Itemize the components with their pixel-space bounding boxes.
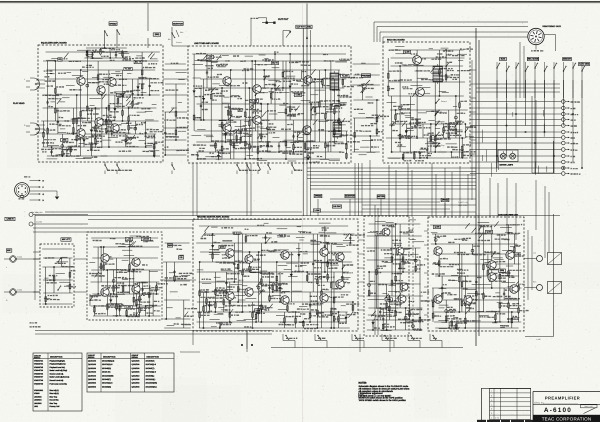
svg-text:(250): (250): [62, 139, 67, 142]
svg-text:VR605/706: VR605/706: [34, 372, 43, 375]
svg-text:Q802/806: Q802/806: [88, 382, 96, 385]
svg-text:VR602/704: VR602/704: [34, 363, 43, 366]
svg-text:Blk: Blk: [168, 38, 171, 41]
svg-text:6: 6: [491, 394, 492, 397]
svg-text:C-955: C-955: [296, 94, 301, 97]
svg-text:TEAC CORPORATION: TEAC CORPORATION: [542, 416, 592, 421]
svg-text:2SC945(L): 2SC945(L): [146, 374, 155, 377]
svg-text:OUT PUT: OUT PUT: [278, 18, 289, 21]
svg-text:REF.NO.: REF.NO.: [34, 356, 41, 359]
svg-text:TL-460: TL-460: [251, 100, 257, 103]
svg-text:LINE IN: LINE IN: [6, 218, 14, 221]
svg-text:BIAS: BIAS: [501, 58, 506, 61]
svg-text:2SC945(T): 2SC945(T): [146, 367, 155, 370]
svg-text:L901: L901: [34, 405, 38, 408]
svg-text:Q301/310: Q301/310: [132, 374, 140, 377]
svg-text:VR603/705: VR603/705: [34, 366, 43, 369]
svg-text:Gry Blk: Gry Blk: [36, 220, 42, 223]
svg-text:2SA726(1)-S: 2SA726(1)-S: [102, 363, 113, 366]
svg-text:Playback Level Adj.: Playback Level Adj.: [50, 366, 66, 369]
svg-text:SPEED: SPEED: [442, 199, 449, 202]
svg-text:L-302: L-302: [127, 238, 132, 241]
svg-text:(250): (250): [334, 104, 339, 107]
svg-text:Q803/806: Q803/806: [88, 385, 96, 388]
svg-text:Relay 2: Relay 2: [441, 111, 447, 114]
svg-text:Q-905: Q-905: [435, 226, 440, 229]
svg-text:L02 OSC: L02 OSC: [333, 205, 341, 208]
svg-text:L02 150: L02 150: [143, 238, 150, 241]
svg-text:TL-460: TL-460: [125, 68, 131, 71]
svg-text:Dummy Coil: Dummy Coil: [50, 405, 60, 408]
svg-text:Record Level Adj.: Record Level Adj.: [50, 379, 65, 382]
svg-text:EQ: EQ: [59, 58, 62, 61]
svg-text:L-446: L-446: [536, 338, 541, 341]
svg-text:L601/602: L601/602: [34, 395, 42, 398]
svg-text:Playback EQ(Norm): Playback EQ(Norm): [50, 363, 66, 366]
svg-text:Rch: Rch: [533, 281, 536, 284]
svg-text:SPEED: SPEED: [109, 22, 117, 25]
svg-text:Q203/206: Q203/206: [132, 367, 140, 370]
svg-text:Relay 1: Relay 1: [441, 100, 447, 103]
svg-text:Lch: Lch: [533, 252, 536, 255]
svg-text:(250): (250): [500, 269, 505, 272]
svg-text:NOTES: NOTES: [359, 381, 367, 384]
svg-text:Bias Trap: Bias Trap: [50, 395, 58, 398]
svg-text:RECORD MASTER AMPL BOARD: RECORD MASTER AMPL BOARD: [197, 215, 230, 218]
svg-text:2SC945(T): 2SC945(T): [146, 360, 155, 363]
svg-text:C-955: C-955: [118, 94, 123, 97]
svg-text:2SC1000(GR): 2SC1000(GR): [102, 374, 114, 377]
svg-text:LINE TONE AMPL BOARD: LINE TONE AMPL BOARD: [194, 42, 219, 45]
svg-text:Meter Level Adj.(Source): Meter Level Adj.(Source): [50, 376, 70, 379]
svg-text:Q104/106: Q104/106: [88, 371, 96, 374]
svg-text:EQUALIZER AMPL BOARD: EQUALIZER AMPL BOARD: [41, 42, 67, 45]
svg-text:Q-904: Q-904: [487, 231, 492, 234]
svg-text:Bias: Bias: [441, 122, 445, 125]
svg-text:VR801/802: VR801/802: [34, 389, 43, 392]
svg-text:TAPE SPEED switch shown in the: TAPE SPEED switch shown in the HIGH posi…: [359, 399, 407, 402]
svg-text:EQ TO: EQ TO: [272, 62, 278, 65]
svg-text:TL-460: TL-460: [342, 75, 348, 78]
svg-text:DESCRIPTION: DESCRIPTION: [103, 356, 116, 359]
svg-text:REMOTE/MIC JACK: REMOTE/MIC JACK: [543, 25, 562, 28]
svg-text:LOW ±2.8V: LOW ±2.8V: [458, 204, 468, 207]
svg-text:1: 1: [491, 417, 492, 420]
svg-text:7: 7: [491, 390, 492, 393]
svg-text:Q102/106: Q102/106: [88, 363, 96, 366]
svg-text:Wht: Wht: [180, 31, 184, 34]
svg-text:VR606/707: VR606/707: [34, 376, 43, 379]
svg-text:AUTO DEM: AUTO DEM: [579, 63, 589, 66]
svg-text:Source: Source: [176, 41, 182, 44]
svg-text:Record EQ: Record EQ: [50, 399, 59, 402]
svg-text:2SA726(1)-S: 2SA726(1)-S: [146, 363, 157, 366]
svg-text:VR601/704: VR601/704: [34, 359, 43, 362]
svg-text:MONITOR: MONITOR: [345, 195, 355, 198]
svg-text:Q101/106: Q101/106: [88, 360, 96, 363]
svg-text:DESCRIPTION: DESCRIPTION: [147, 356, 160, 359]
svg-text:2SC1222(L): 2SC1222(L): [146, 378, 156, 381]
svg-text:Q308: Q308: [220, 246, 224, 249]
svg-text:Q401/406: Q401/406: [132, 378, 140, 381]
svg-text:SPEED: SPEED: [315, 195, 322, 198]
svg-text:Meter Level Adj.(Play): Meter Level Adj.(Play): [50, 369, 68, 372]
svg-text:2SA66 (Y): 2SA66 (Y): [102, 371, 111, 374]
svg-text:MIC ATT: MIC ATT: [62, 238, 71, 241]
svg-text:BIAS OSC BOARD: BIAS OSC BOARD: [387, 39, 405, 42]
svg-text:REC MODE: REC MODE: [528, 58, 539, 61]
svg-text:Peak Lamp Level Adj.: Peak Lamp Level Adj.: [50, 382, 68, 385]
svg-text:VR607/708: VR607/708: [34, 379, 43, 382]
svg-text:Shield: Shield: [17, 289, 22, 292]
svg-text:Q801/806: Q801/806: [88, 378, 96, 381]
svg-text:2SC828(S): 2SC828(S): [102, 385, 111, 388]
svg-text:MEMORY: MEMORY: [563, 58, 572, 61]
svg-text:L-304: L-304: [315, 209, 320, 212]
svg-text:PLAY HEAD: PLAY HEAD: [13, 102, 25, 105]
svg-text:2SC1000(GR): 2SC1000(GR): [146, 382, 158, 385]
svg-text:L801/802: L801/802: [34, 402, 42, 405]
svg-text:A-6100: A-6100: [544, 407, 572, 414]
svg-text:PREAMPLIFIER: PREAMPLIFIER: [545, 396, 580, 401]
svg-text:Bias Adj.(2): Bias Adj.(2): [50, 392, 60, 395]
svg-text:METER: METER: [378, 195, 386, 198]
svg-text:2: 2: [491, 412, 492, 415]
svg-text:MONITOR: MONITOR: [173, 22, 183, 25]
svg-text:(25V): (25V): [155, 33, 160, 36]
svg-text:2SA726(1)-S: 2SA726(1)-S: [102, 382, 113, 385]
svg-text:Shield: Shield: [17, 256, 22, 259]
svg-text:L-201: L-201: [126, 306, 131, 309]
svg-text:Gry Wht: Gry Wht: [36, 211, 43, 214]
svg-text:2SC1000(GL): 2SC1000(GL): [146, 385, 157, 388]
svg-text:L: L: [6, 266, 7, 269]
svg-text:Q-405: Q-405: [405, 51, 410, 54]
svg-text:Q105/106: Q105/106: [88, 374, 96, 377]
svg-text:3: 3: [491, 408, 492, 411]
svg-text:VR608/708: VR608/708: [34, 382, 43, 385]
svg-text:OUT PUT LEVEL: OUT PUT LEVEL: [297, 26, 313, 29]
svg-text:VR803: VR803: [34, 392, 40, 395]
svg-text:L-201: L-201: [208, 56, 213, 59]
svg-text:Q201/206: Q201/206: [132, 360, 140, 363]
svg-text:4: 4: [491, 403, 492, 406]
svg-text:Q103/106: Q103/106: [88, 367, 96, 370]
svg-text:2SC945(S): 2SC945(S): [102, 367, 111, 370]
svg-text:2SA726(1)-S: 2SA726(1)-S: [146, 371, 157, 374]
svg-text:METER LAMPS: METER LAMPS: [500, 164, 514, 167]
svg-text:5: 5: [491, 399, 492, 402]
svg-text:Source Level Adj.: Source Level Adj.: [50, 372, 64, 375]
svg-text:Rec: Rec: [441, 133, 444, 136]
svg-text:Q901/906: Q901/906: [132, 385, 140, 388]
svg-text:Q204/206: Q204/206: [132, 371, 140, 374]
svg-text:Bias Trap: Bias Trap: [50, 402, 58, 405]
svg-text:Q801/902: Q801/902: [132, 382, 140, 385]
svg-text:L603/604: L603/604: [34, 399, 42, 402]
svg-text:Q202/206: Q202/206: [132, 363, 140, 366]
svg-text:DESCRIPTION: DESCRIPTION: [50, 356, 63, 359]
svg-text:Bias Adj.(1): Bias Adj.(1): [50, 389, 60, 392]
svg-text:VR604/706: VR604/706: [34, 369, 43, 372]
svg-text:Play: Play: [441, 144, 445, 147]
svg-text:MIC: MIC: [7, 249, 11, 252]
svg-text:2SC1345(Spcl): 2SC1345(Spcl): [102, 360, 115, 363]
svg-text:4 '74: 4 '74: [495, 417, 499, 420]
svg-text:Playback EQ(High): Playback EQ(High): [50, 359, 66, 362]
svg-text:BO TY: BO TY: [135, 61, 142, 64]
svg-text:2SC945(T): 2SC945(T): [102, 378, 111, 381]
